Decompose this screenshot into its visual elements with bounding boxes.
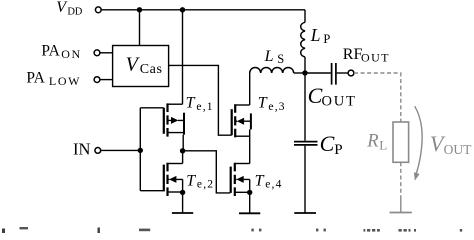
node internode left cascode [180, 148, 185, 153]
node IN junction [138, 148, 143, 153]
terminal PA_ON [94, 50, 100, 56]
label LP [310, 25, 331, 46]
label RL [366, 131, 387, 152]
svg-text:OUT: OUT [444, 142, 472, 157]
svg-text:OUT: OUT [361, 50, 390, 64]
transistor T3 (top-right nFET) [232, 104, 251, 163]
transistor T1 (top-left nFET) [164, 103, 184, 150]
svg-text:T: T [255, 172, 265, 189]
svg-text:L: L [379, 137, 387, 152]
svg-text:DD: DD [67, 7, 82, 18]
arrow VOUT [414, 106, 422, 180]
svg-text:C: C [320, 131, 335, 156]
label CP [320, 131, 343, 158]
wire dashed RFOUT to RL [354, 73, 401, 122]
wire T4 source to ground [249, 192, 251, 213]
label VCas [126, 53, 163, 76]
transistor T2 (bottom-left nFET) [164, 163, 183, 196]
label IN [73, 140, 90, 159]
ground T4 [239, 212, 260, 214]
node T2 source [180, 190, 185, 195]
ground RL [390, 212, 412, 214]
terminal IN [95, 148, 101, 154]
svg-text:PA: PA [41, 42, 60, 59]
wire VDD rail [102, 9, 306, 11]
terminal RFOUT [348, 70, 354, 76]
svg-text:C: C [308, 83, 323, 108]
svg-text:T: T [258, 95, 268, 112]
label T2 [186, 172, 214, 190]
wire PA_ON to box [100, 52, 112, 54]
wire T2 source to ground [182, 192, 184, 213]
wire VDD rail corner to LP [304, 10, 306, 22]
svg-text:LOW: LOW [49, 74, 81, 88]
label T4 [255, 172, 283, 190]
svg-text:P: P [323, 32, 330, 46]
wire VCas output to T3 gate [169, 65, 232, 135]
svg-text:V: V [126, 53, 141, 75]
inductor LS [250, 67, 305, 73]
label PA_LOW [26, 70, 81, 89]
wire input gate rail [140, 108, 164, 191]
label RFOUT [343, 46, 390, 64]
label T3 [258, 95, 286, 113]
svg-text:R: R [366, 131, 378, 151]
svg-text:S: S [277, 52, 284, 66]
terminal PA_LOW [94, 77, 100, 83]
wire internode to T4 gate [183, 151, 231, 193]
svg-text:P: P [334, 142, 342, 158]
label VOUT [430, 131, 472, 157]
node VDD-VCas junction [137, 7, 142, 12]
capacitor CP [294, 76, 318, 213]
svg-text:RF: RF [343, 46, 363, 63]
capacitor COUT [305, 63, 348, 85]
wire T1 drain to VDD [182, 10, 184, 104]
node VDD-T1 drain junction [180, 7, 185, 12]
svg-text:e,4: e,4 [265, 179, 282, 191]
terminal VDD [95, 7, 101, 13]
resistor RL [393, 122, 409, 162]
label COUT [308, 83, 357, 110]
transistor T4 (bottom-right nFET) [231, 163, 250, 196]
block VCas (cascode bias box) [113, 46, 169, 87]
svg-text:e,2: e,2 [197, 179, 214, 191]
svg-text:T: T [186, 95, 196, 112]
svg-text:Cas: Cas [140, 62, 163, 77]
inductor LP [301, 22, 305, 73]
node output [302, 70, 307, 75]
wire T2 drain to internode [182, 151, 184, 164]
ground T2 [172, 212, 193, 214]
label VDD [56, 0, 82, 18]
svg-text:L: L [264, 48, 274, 65]
wire PA_LOW to box [100, 79, 112, 81]
svg-text:e,1: e,1 [196, 101, 213, 113]
ground CP [294, 212, 316, 214]
svg-text:T: T [186, 172, 196, 189]
svg-text:OUT: OUT [322, 93, 357, 109]
svg-text:L: L [310, 25, 321, 45]
svg-text:ON: ON [61, 47, 82, 61]
svg-text:IN: IN [73, 140, 90, 159]
node T4 source [247, 190, 252, 195]
svg-text:PA: PA [26, 70, 45, 87]
label LS [264, 48, 285, 66]
wire IN to gate rail [101, 149, 140, 151]
wire T3 drain to LS [249, 73, 251, 105]
label PA_ON [41, 42, 81, 61]
svg-text:e,3: e,3 [268, 101, 285, 113]
label T1 [186, 95, 214, 113]
caption fragments at bottom edge [2, 227, 462, 233]
wire dashed RL to ground [400, 162, 402, 212]
wire VDD to VCas box [139, 10, 141, 46]
